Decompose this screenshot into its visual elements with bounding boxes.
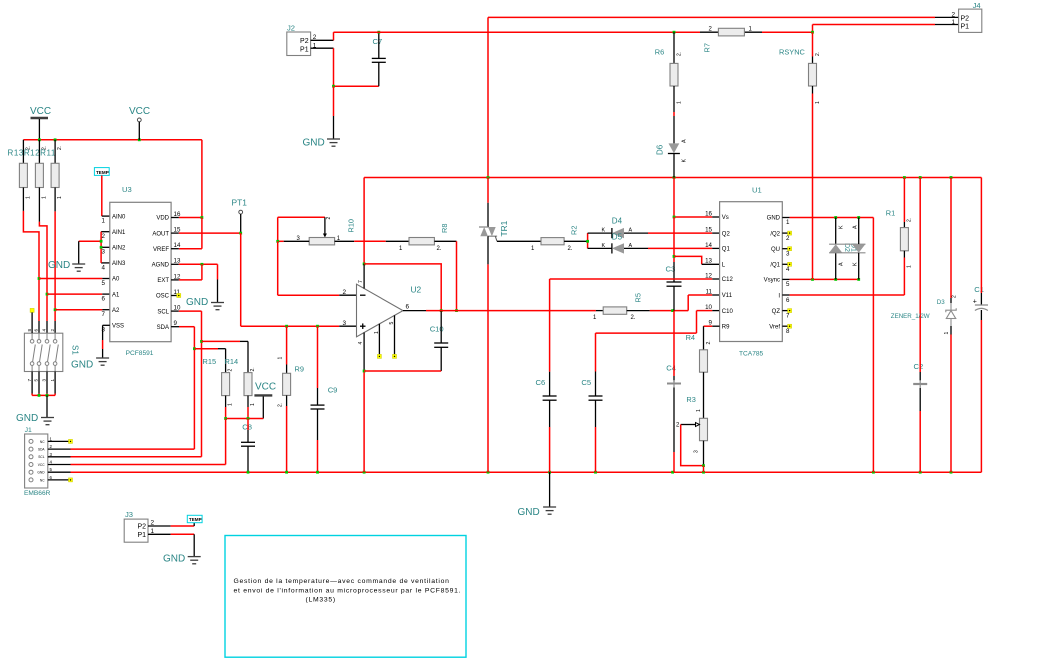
- diode D6: [656, 139, 688, 178]
- svg-text:2: 2: [952, 295, 958, 298]
- svg-text:3: 3: [694, 450, 700, 453]
- svg-text:1: 1: [944, 332, 950, 335]
- svg-text:U2: U2: [411, 285, 422, 295]
- svg-text:1: 1: [250, 403, 256, 406]
- svg-text:R7: R7: [702, 43, 711, 52]
- svg-text:2.: 2.: [815, 52, 821, 56]
- svg-text:5: 5: [102, 280, 106, 287]
- svg-text:GND: GND: [16, 413, 38, 424]
- svg-text:2: 2: [951, 11, 955, 18]
- svg-text:A0: A0: [112, 277, 120, 283]
- svg-text:K: K: [602, 228, 606, 234]
- svg-text:11: 11: [706, 288, 713, 295]
- wire: A1 row: [47, 293, 110, 295]
- svg-text:D4: D4: [612, 217, 623, 226]
- svg-text:2: 2: [102, 233, 106, 240]
- svg-text:2.: 2.: [676, 52, 682, 56]
- svg-text:OSC: OSC: [156, 294, 170, 300]
- svg-text:R15: R15: [203, 357, 217, 366]
- svg-text:1: 1: [676, 101, 682, 104]
- svg-text:TEMP: TEMP: [96, 170, 109, 175]
- resistor R14: [225, 357, 257, 419]
- wire: U2 output row to R5: [403, 310, 603, 312]
- svg-text:SCL: SCL: [38, 455, 44, 459]
- svg-text:A1: A1: [112, 292, 120, 298]
- svg-text:3: 3: [102, 249, 106, 256]
- svg-text:7: 7: [102, 311, 106, 318]
- triac TR1: [479, 178, 509, 473]
- svg-text:EMB66R: EMB66R: [24, 490, 51, 497]
- svg-text:7: 7: [786, 313, 790, 320]
- wire: R12 to A1 / S1 col3: [39, 188, 48, 334]
- svg-text:(LM335): (LM335): [306, 597, 336, 604]
- pin QZ unconnected (yellow): [782, 309, 791, 313]
- svg-text:C9: C9: [328, 386, 338, 395]
- resistor R13: [8, 140, 56, 199]
- wire: A0 row: [39, 278, 110, 280]
- svg-text:7: 7: [358, 280, 364, 283]
- svg-text:R10: R10: [347, 219, 356, 233]
- potentiometer R3: [676, 395, 708, 472]
- wire: U1 GND pin net (down to rail): [782, 216, 873, 472]
- wire: J1 pin4 VCC row: [48, 464, 226, 466]
- capacitor C9: [311, 326, 338, 472]
- svg-text:2.: 2.: [57, 146, 63, 150]
- wire: mains row (J2 pin2 - R7 - J4 pin1): [334, 25, 959, 34]
- svg-text:2.: 2.: [437, 246, 442, 252]
- svg-text:R8: R8: [440, 224, 449, 233]
- wire: U1 pin9 to R4: [704, 326, 720, 350]
- capacitor C8: [241, 419, 255, 473]
- op-amp U2: [342, 280, 421, 345]
- note box (description): [225, 536, 466, 658]
- svg-text:2.: 2.: [907, 218, 913, 222]
- svg-text:TEMP: TEMP: [189, 517, 202, 522]
- ground GND (main rail): [518, 472, 557, 518]
- svg-text:1: 1: [277, 357, 283, 360]
- svg-text:4: 4: [786, 266, 790, 273]
- wire: U1 pin10 to C5: [596, 311, 720, 372]
- connector J2: [287, 24, 317, 56]
- wire: A2 row: [55, 309, 110, 311]
- svg-text:QZ: QZ: [772, 309, 781, 315]
- wire: J2 pin2 to mains row: [311, 32, 334, 40]
- svg-text:5: 5: [786, 281, 790, 288]
- node PT1: [232, 198, 248, 234]
- svg-text:C6: C6: [536, 378, 546, 387]
- pin /Q2 unconnected (yellow): [782, 231, 791, 235]
- svg-text:AIN0: AIN0: [112, 214, 126, 220]
- svg-text:R6: R6: [655, 48, 664, 57]
- wire: J3 pin2 to TEMP: [148, 523, 194, 527]
- svg-text:R4: R4: [686, 333, 695, 342]
- wire: C12 net (U1 pin12 to C6): [550, 279, 720, 372]
- wire: VCC top rail: [23, 138, 202, 141]
- svg-text:GND: GND: [186, 297, 208, 308]
- svg-text:AGND: AGND: [152, 263, 170, 269]
- svg-text:VCC: VCC: [30, 106, 51, 117]
- resistor R12: [35, 140, 47, 199]
- svg-text:R1: R1: [886, 209, 895, 218]
- svg-text:P1: P1: [137, 532, 146, 539]
- svg-text:4: 4: [358, 342, 364, 345]
- capacitor C6: [536, 372, 557, 473]
- IC U1 TCA785: [705, 186, 790, 358]
- svg-text:4: 4: [42, 329, 47, 332]
- wire: VDD net (VCC rail down to pin 16 and VREF): [171, 140, 203, 249]
- connector J1 EMB66R: [24, 427, 53, 497]
- svg-text:SDA: SDA: [38, 448, 45, 452]
- svg-text:GND: GND: [303, 138, 325, 149]
- diode D1 (sync clamp, apex up): [829, 218, 856, 280]
- wire: main mid rail (mains L / Vs supply): [364, 176, 981, 179]
- ground GND (J2): [303, 138, 341, 149]
- svg-text:2.: 2.: [250, 367, 256, 371]
- connector J3: [124, 510, 154, 542]
- wire: J2 pin1 to C7/GND: [311, 48, 379, 139]
- svg-text:AIN3: AIN3: [112, 261, 126, 267]
- ground GND (AIN net): [48, 241, 85, 271]
- wire: R5 to U1 pin11 (V11): [688, 295, 719, 311]
- svg-text:A: A: [853, 225, 859, 229]
- node TEMP (label, J3): [187, 515, 202, 522]
- wire: TEMP to AIN0: [102, 175, 110, 216]
- wire: TR1 gate to R2: [497, 240, 541, 242]
- svg-text:QU: QU: [771, 247, 780, 253]
- pin OSC unconnected (yellow): [171, 294, 181, 298]
- svg-text:2: 2: [228, 369, 234, 372]
- svg-text:14: 14: [705, 242, 712, 249]
- svg-text:R13R12R11: R13R12R11: [8, 149, 56, 158]
- zener diode D3 ZENER_1/2W: [891, 178, 958, 473]
- diode D2 (sync clamp, apex down): [829, 218, 865, 280]
- power VCC (circle pin symbol): [129, 106, 150, 140]
- svg-text:VDD: VDD: [156, 216, 169, 222]
- svg-text:D5: D5: [612, 233, 623, 242]
- svg-text:NC: NC: [40, 440, 45, 444]
- wire: rail left leg down to R10/R8 row and U2 feedback: [363, 178, 366, 266]
- svg-text:VCC: VCC: [129, 106, 150, 117]
- svg-text:AIN1: AIN1: [112, 230, 126, 236]
- svg-text:NC: NC: [40, 478, 45, 482]
- wire: J1 pin3 SCL row: [48, 456, 202, 458]
- svg-text:J2: J2: [287, 24, 295, 33]
- svg-text:A2: A2: [112, 308, 120, 314]
- svg-text:C5: C5: [581, 378, 591, 387]
- wire: J1 pin2 SDA row: [48, 448, 195, 450]
- svg-text:K: K: [839, 225, 845, 229]
- svg-text:C12: C12: [722, 277, 734, 283]
- svg-text:2.: 2.: [631, 315, 636, 321]
- svg-text:K: K: [853, 262, 859, 266]
- svg-text:C10: C10: [722, 309, 734, 315]
- capacitor C2: [913, 178, 927, 473]
- wire: R13 to A0 / S1 col2: [23, 188, 40, 334]
- svg-text:1: 1: [696, 409, 702, 412]
- svg-text:Q1: Q1: [722, 247, 731, 253]
- svg-text:1: 1: [786, 219, 790, 226]
- svg-text:K: K: [602, 243, 606, 249]
- svg-text:GND: GND: [48, 260, 70, 271]
- wire: R2 to D4 cathodes: [586, 233, 589, 248]
- svg-text:4: 4: [102, 264, 106, 271]
- svg-text:R14: R14: [225, 357, 239, 366]
- svg-text:3: 3: [342, 320, 346, 327]
- svg-text:1: 1: [951, 19, 955, 26]
- svg-text:2.: 2.: [706, 340, 712, 344]
- svg-text:D6: D6: [656, 144, 665, 155]
- svg-text:TCA785: TCA785: [739, 351, 764, 358]
- svg-text:16: 16: [705, 210, 712, 217]
- pin Vref unconnected (yellow): [782, 324, 791, 328]
- wire: Vsync net: [782, 278, 860, 281]
- capacitor C3: [666, 262, 682, 311]
- wire: AOUT net (pin15 to PT1, down to U2 pin3 row): [171, 232, 356, 328]
- wire: R10 wiper to U2 pin2: [278, 241, 357, 295]
- svg-text:et envoi de l'information au m: et envoi de l'information au microproces…: [234, 587, 462, 594]
- svg-text:Q2: Q2: [722, 231, 731, 237]
- resistor R15: [203, 357, 234, 419]
- svg-text:P1: P1: [300, 47, 309, 54]
- svg-text:Vref: Vref: [769, 325, 780, 331]
- svg-text:1: 1: [50, 379, 55, 382]
- capacitor C10: [364, 311, 448, 371]
- wire: Vs net (rail to U1 pin16): [673, 178, 720, 219]
- pin QU unconnected (yellow): [782, 247, 791, 251]
- svg-text:V11: V11: [722, 293, 733, 299]
- svg-text:R2: R2: [570, 226, 579, 235]
- svg-text:PT1: PT1: [232, 198, 248, 208]
- wire: U2 pin4 to ground rail: [363, 333, 366, 473]
- svg-text:/Q2: /Q2: [770, 231, 780, 237]
- ground GND (J3): [163, 554, 201, 565]
- svg-text:TR1: TR1: [499, 220, 509, 236]
- wire: J1 pin5 GND rail (main bottom rail): [48, 471, 982, 474]
- svg-text:D3: D3: [937, 299, 945, 306]
- svg-text:6: 6: [786, 297, 790, 304]
- resistor R1: [886, 178, 913, 296]
- svg-text:SCL: SCL: [157, 309, 169, 315]
- svg-text:C7: C7: [373, 37, 383, 46]
- svg-text:AIN2: AIN2: [112, 246, 126, 252]
- wire: J3 pin1 to ground: [148, 534, 194, 556]
- svg-text:AOUT: AOUT: [152, 231, 169, 237]
- svg-text:VCC: VCC: [38, 463, 45, 467]
- wire: U2 pin1 stub (yellow): [377, 324, 381, 359]
- svg-text:2.: 2.: [568, 246, 573, 252]
- wire: AGND/EXT to ground: [171, 263, 217, 303]
- svg-text:VCC: VCC: [255, 382, 276, 393]
- svg-text:A: A: [839, 262, 845, 266]
- svg-text:1: 1: [102, 218, 106, 225]
- svg-text:1: 1: [228, 403, 234, 406]
- wire: R11 to A2 / S1 col4: [54, 188, 57, 334]
- resistor R4: [686, 333, 712, 418]
- switch S1: [24, 308, 79, 381]
- svg-text:Gestion de la temperature—avec: Gestion de la temperature—avec commande …: [234, 578, 450, 585]
- svg-text:8: 8: [27, 329, 32, 332]
- svg-text:EXT: EXT: [157, 278, 169, 284]
- svg-text:ZENER_1/2W: ZENER_1/2W: [891, 313, 930, 320]
- svg-text:2.: 2.: [26, 146, 32, 150]
- wire: L pin net with C3: [673, 217, 720, 264]
- svg-text:13: 13: [705, 258, 712, 265]
- svg-text:2: 2: [50, 329, 55, 332]
- svg-text:6: 6: [102, 296, 106, 303]
- svg-text:1: 1: [42, 196, 48, 199]
- svg-text:P2: P2: [137, 524, 146, 531]
- svg-text:1: 1: [57, 196, 63, 199]
- svg-text:2: 2: [326, 217, 332, 220]
- wire: J4 pin2 top rail: [488, 17, 959, 177]
- svg-text:R5: R5: [633, 293, 642, 302]
- wire: S1 bottom commoning: [32, 372, 55, 418]
- capacitor C5: [581, 372, 602, 473]
- capacitor C1 (polarized): [973, 178, 988, 473]
- resistor R9 (on AOUT net): [277, 326, 304, 472]
- svg-text:VSS: VSS: [112, 324, 124, 330]
- svg-text:J4: J4: [973, 1, 981, 10]
- svg-text:R9: R9: [295, 365, 304, 374]
- resistor R7: [702, 27, 752, 53]
- svg-text:P2: P2: [961, 15, 970, 22]
- wire: SDA net (to J1 pin2, R15 branch): [171, 327, 226, 449]
- wire: U1 pin6 I row: [782, 294, 904, 296]
- connector J4: [951, 1, 981, 33]
- wire: VCC row to J1 pin4: [224, 417, 263, 464]
- svg-text:C1: C1: [974, 285, 984, 294]
- wire: R8 pin2 down to U2 output row: [455, 241, 458, 312]
- svg-text:/Q1: /Q1: [770, 263, 780, 269]
- svg-text:10: 10: [705, 304, 712, 311]
- wire: J1 pin1 stub (unconnected): [48, 439, 73, 443]
- wire: J1 pin6 stub (unconnected): [48, 478, 73, 482]
- svg-text:S1: S1: [71, 345, 80, 355]
- svg-text:K: K: [682, 159, 688, 163]
- svg-text:RSYNC: RSYNC: [779, 48, 806, 57]
- svg-text:GND: GND: [163, 554, 185, 565]
- svg-text:Vs: Vs: [722, 215, 729, 221]
- resistor RSYNC: [779, 31, 821, 280]
- svg-text:2: 2: [786, 235, 790, 242]
- svg-text:12: 12: [705, 272, 712, 279]
- resistor R6: [655, 32, 683, 143]
- svg-text:J3: J3: [125, 510, 133, 519]
- wire: U2 pin5 stub (yellow): [393, 315, 397, 358]
- svg-text:6: 6: [34, 329, 39, 332]
- pin /Q1 unconnected (yellow): [782, 262, 791, 266]
- svg-text:GND: GND: [71, 360, 93, 371]
- svg-text:R3: R3: [686, 395, 695, 404]
- svg-text:GND: GND: [518, 507, 540, 518]
- svg-text:6: 6: [406, 304, 410, 311]
- resistor R8: [335, 224, 457, 252]
- svg-text:5: 5: [34, 379, 39, 382]
- svg-text:C2: C2: [914, 362, 924, 371]
- node TEMP (label, near U3 AIN0): [94, 168, 109, 176]
- capacitor C7: [372, 31, 386, 86]
- ground GND (VSS): [71, 358, 109, 371]
- svg-text:P2: P2: [300, 38, 309, 45]
- svg-text:1: 1: [815, 101, 821, 104]
- svg-text:SDA: SDA: [157, 325, 169, 331]
- ground GND (AGND): [186, 297, 224, 310]
- svg-text:8: 8: [786, 328, 790, 335]
- svg-text:VREF: VREF: [153, 247, 169, 253]
- svg-text:Vsync: Vsync: [764, 278, 780, 284]
- svg-text:1: 1: [907, 265, 913, 268]
- diode D5 (to Q1): [588, 233, 720, 254]
- potentiometer R10: [276, 217, 355, 245]
- svg-text:GND: GND: [37, 471, 45, 475]
- wire: VSS to ground: [103, 325, 110, 358]
- svg-text:P1: P1: [961, 24, 970, 31]
- svg-text:C8: C8: [242, 423, 252, 432]
- svg-text:PCF8591: PCF8591: [126, 350, 154, 357]
- wire: U2 pin7 stub: [363, 264, 365, 289]
- resistor R11: [51, 140, 63, 199]
- wire: SCL net (to J1 pin3, R14 branch): [171, 311, 248, 457]
- svg-text:GND: GND: [767, 216, 781, 222]
- resistor R2: [531, 226, 588, 252]
- svg-text:2: 2: [342, 289, 346, 296]
- svg-text:A: A: [682, 139, 688, 143]
- svg-text:2.: 2.: [42, 146, 48, 150]
- svg-text:U1: U1: [752, 186, 762, 195]
- svg-text:2.: 2.: [277, 403, 283, 407]
- svg-text:15: 15: [705, 227, 712, 234]
- power VCC (bar, R14/R15 bottoms): [254, 382, 276, 419]
- svg-text:1: 1: [26, 196, 32, 199]
- svg-text:3: 3: [42, 379, 47, 382]
- svg-text:R9: R9: [722, 324, 730, 330]
- wire: U2 feedback loop (pin7/out): [364, 264, 442, 312]
- wire: AIN1-AIN2-AIN3 tie: [79, 232, 110, 263]
- diode D4 (to Q2): [588, 217, 720, 239]
- capacitor C4: [666, 311, 681, 473]
- svg-text:7: 7: [27, 379, 32, 382]
- resistor R5: [593, 293, 688, 321]
- svg-text:U3: U3: [122, 185, 132, 194]
- power VCC (bar symbol, top-left): [30, 106, 51, 140]
- IC U3 PCF8591: [102, 185, 181, 357]
- svg-text:J1: J1: [25, 427, 32, 434]
- svg-text:3: 3: [786, 251, 790, 258]
- ground GND (S1): [16, 413, 54, 425]
